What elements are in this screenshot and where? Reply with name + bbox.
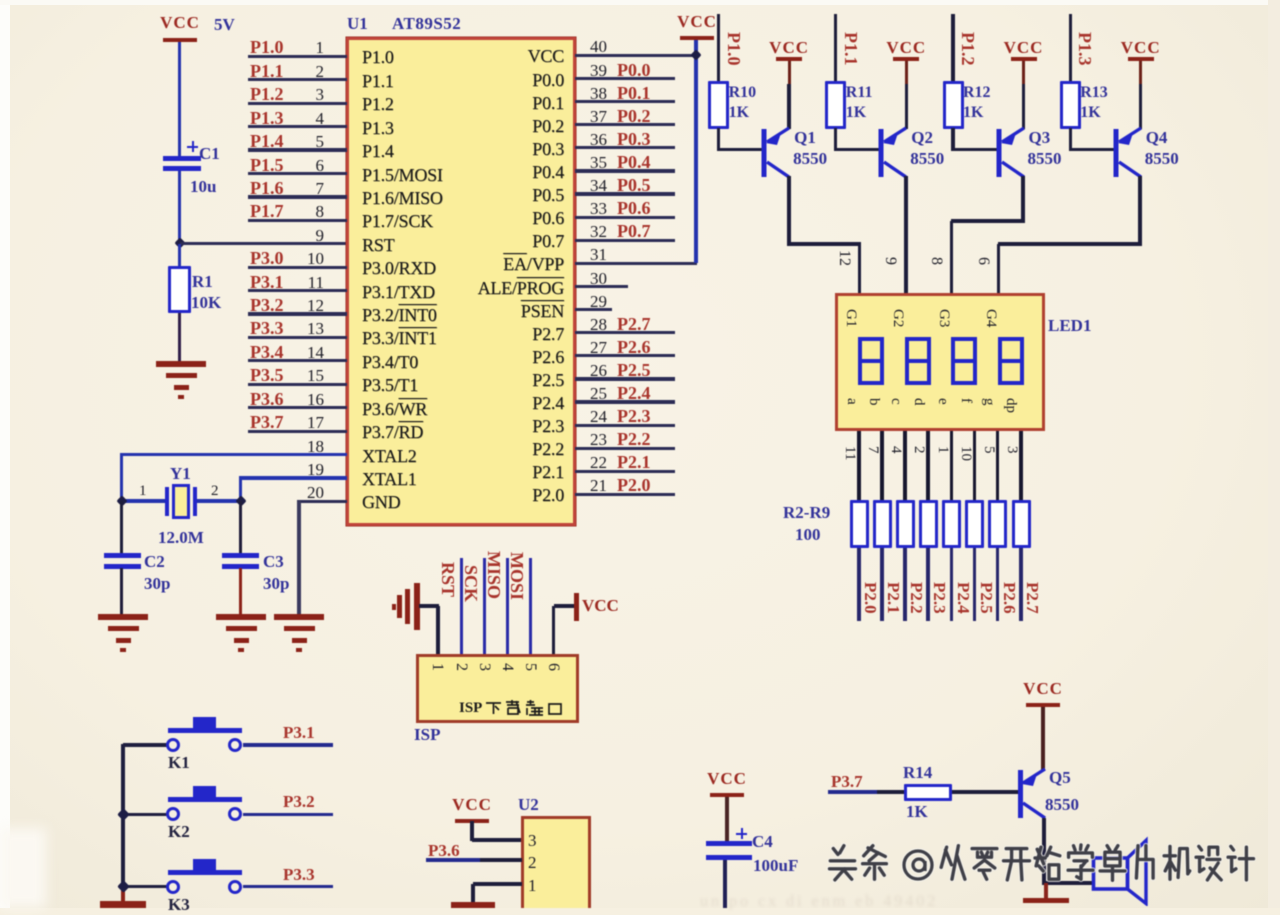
U1 pin name 31 bbox=[364, 254, 564, 275]
U1 pin name 39 bbox=[364, 70, 564, 91]
pin 34 wire bbox=[0, 0, 1280, 1]
pin 3 wire / net label P1.2 bbox=[0, 0, 1280, 1]
LED1 common label G1 bbox=[842, 309, 859, 327]
wire LED1 pin 1 to R6 bbox=[950, 431, 954, 500]
value 8550 bbox=[910, 149, 944, 169]
wire key bus to ground bbox=[121, 886, 125, 901]
node P1.3 (driver input) bbox=[1074, 32, 1095, 66]
U2 pin number 2 bbox=[528, 853, 537, 873]
LED1 segment label f bbox=[957, 398, 974, 403]
resistor R14 bbox=[904, 784, 952, 801]
wire Y1 pin2 to C3 bbox=[239, 501, 242, 553]
pin 6 wire / net label P1.5 bbox=[0, 0, 1280, 1]
value 30p bbox=[263, 574, 289, 594]
designator R2-R9 bbox=[783, 503, 830, 523]
pin 32 wire bbox=[0, 0, 1280, 1]
label 5V bbox=[214, 15, 235, 35]
transistor Q1 8550 PNP bbox=[759, 124, 795, 182]
wire XTAL1 down bbox=[239, 478, 242, 501]
LED1 segment label e bbox=[934, 398, 951, 405]
power VCC (U2 pin3) bbox=[432, 795, 512, 815]
wire VCC down to pin40/pin31 bbox=[694, 40, 697, 263]
designator Y1 bbox=[170, 464, 191, 484]
capacitor C3 (30p) bbox=[222, 553, 259, 568]
pin 21 wire bbox=[0, 0, 1280, 1]
pin 31 wire bbox=[0, 0, 1280, 1]
wire ISP pin6 bbox=[552, 606, 555, 655]
wire ISP pin6 to VCC bbox=[554, 604, 576, 607]
pin number 10 bbox=[957, 446, 974, 461]
designator C1 bbox=[199, 144, 220, 164]
power VCC (Q1 emitter) bbox=[749, 38, 829, 58]
Y1 pin 1 number bbox=[139, 483, 147, 500]
node P1.0 (driver input) bbox=[723, 32, 744, 66]
pin number 11 bbox=[841, 446, 858, 460]
ISP pin number 6 bbox=[544, 663, 562, 671]
Y1 pin 2 number bbox=[211, 483, 219, 500]
wire Q2 collector to LED pin9 bbox=[904, 176, 908, 294]
wire LED pin6 bbox=[997, 244, 1001, 294]
pin number 7 bbox=[864, 446, 881, 454]
pin number 9 bbox=[881, 257, 899, 265]
pin 28 wire bbox=[0, 0, 1280, 1]
wire VCC to Q2 emitter (red) bbox=[905, 61, 908, 84]
wire Y1 pin1 to C2 bbox=[120, 501, 123, 553]
pin number 6 bbox=[974, 257, 992, 265]
watermark 头条 @从零开始学单片机设计 bbox=[820, 840, 1268, 898]
wire base of Q1 bbox=[719, 148, 766, 151]
resistor R6 bbox=[942, 500, 961, 548]
U1 pin name 4 bbox=[362, 118, 394, 139]
U1 pin name 29 bbox=[364, 301, 564, 322]
pin 17 wire / net label P3.7 bbox=[0, 0, 1280, 1]
wire Q5 to speaker bbox=[1044, 881, 1092, 885]
C4 polarity plus bbox=[736, 828, 747, 839]
wire key bus bbox=[121, 744, 125, 889]
display LED1 (4-digit 7-segment) bbox=[835, 293, 1045, 431]
pin 35 wire bbox=[0, 0, 1280, 1]
junction RST node bbox=[174, 237, 185, 248]
ground (ISP pin1, rotated) bbox=[392, 583, 420, 630]
designator C4 bbox=[752, 832, 773, 852]
designator ISP bbox=[414, 725, 440, 745]
wire P1.3 into R13 bbox=[1069, 14, 1072, 82]
power VCC (Q2 emitter) bbox=[866, 38, 946, 58]
pin 4 wire / net label P1.3 bbox=[0, 0, 1280, 1]
U1 pin name 7 bbox=[362, 188, 443, 209]
value 8550 bbox=[1028, 149, 1062, 169]
wire C3 to ground bbox=[239, 568, 242, 614]
pin 33 wire bbox=[0, 0, 1280, 1]
node RST bbox=[437, 562, 458, 597]
U1 pin name 6 bbox=[362, 165, 443, 186]
wire net P3.7 underline bbox=[828, 790, 877, 793]
pin 12 wire / net label P3.2 bbox=[0, 0, 1280, 1]
wire Y1 right bbox=[197, 499, 241, 502]
wire LED1 pin 5 to R8 bbox=[996, 431, 1000, 500]
crystal Y1 bbox=[165, 484, 197, 520]
designator Q2 bbox=[911, 128, 933, 148]
pin 39 wire bbox=[0, 0, 1280, 1]
pin 14 wire / net label P3.4 bbox=[0, 0, 1280, 1]
wire C1 to RST node bbox=[178, 171, 181, 244]
junction Y1 pin1 node bbox=[116, 495, 127, 506]
U1 pin name 30 bbox=[364, 278, 564, 299]
designator R11 bbox=[846, 84, 873, 102]
U1 pin name 25 bbox=[364, 393, 564, 414]
ground (speaker net, clipped) bbox=[1023, 898, 1069, 903]
pin 23 wire bbox=[0, 0, 1280, 1]
ground below C2 bbox=[98, 614, 148, 620]
node P1.1 (driver input) bbox=[840, 32, 861, 66]
U1 pin name 17 bbox=[362, 422, 423, 443]
wire ISP pin1 bbox=[436, 606, 439, 655]
value 1K bbox=[846, 104, 866, 122]
LED1 common label G4 bbox=[982, 309, 999, 327]
pin number 2 bbox=[910, 446, 927, 454]
pin number 8 bbox=[927, 257, 945, 265]
wire P1.0 into R10 bbox=[717, 14, 720, 82]
pin 7 wire / net label P1.6 bbox=[0, 0, 1280, 1]
pin number 4 bbox=[887, 446, 904, 454]
node P1.2 (driver input) bbox=[957, 32, 978, 66]
wire VCC to Q1 emitter bbox=[787, 84, 790, 129]
wire GND pin20 down bbox=[297, 501, 300, 614]
wire U2 pin1 down bbox=[471, 884, 474, 902]
resistor R11 bbox=[825, 81, 846, 129]
LED1 digit G4 bbox=[998, 337, 1024, 385]
wire base of Q4 bbox=[1070, 148, 1117, 151]
wire R4 to net P2.2 bbox=[903, 548, 907, 621]
resistor R4 bbox=[896, 500, 915, 548]
U1 pin name 20 bbox=[362, 492, 400, 513]
designator C2 bbox=[144, 552, 165, 572]
junction pin40 node bbox=[690, 50, 701, 61]
LED1 segment label a bbox=[843, 398, 860, 405]
ISP pin number 5 bbox=[521, 663, 539, 671]
wire K1 to net P3.1 bbox=[243, 743, 333, 746]
U1 pin name 5 bbox=[362, 141, 394, 162]
wire P3.6 to U2 pin2 bbox=[480, 858, 522, 861]
node P2.7 bbox=[1022, 582, 1042, 614]
wire R3 to net P2.1 bbox=[880, 548, 884, 621]
U1 pin name 9 bbox=[362, 235, 394, 256]
wire Q4 to LED pin6 bbox=[998, 242, 1140, 246]
wire P1.2 into R12 bbox=[951, 14, 954, 82]
wire Q1 collector bbox=[787, 176, 791, 246]
wire R1 to ground bbox=[178, 313, 181, 361]
pin 27 wire bbox=[0, 0, 1280, 1]
wire base of Q2 bbox=[836, 148, 883, 151]
U1 pin name 8 bbox=[362, 211, 433, 232]
node MOSI bbox=[506, 552, 527, 600]
wire LED1 pin 4 to R4 bbox=[903, 431, 907, 500]
wire XTAL2 down bbox=[120, 455, 123, 501]
wire R5 to net P2.3 bbox=[926, 548, 930, 621]
wire LED1 pin 7 to R3 bbox=[880, 431, 884, 500]
U1 pin name 15 bbox=[362, 375, 418, 396]
resistor R1 bbox=[168, 266, 191, 313]
pin 9 stub bbox=[0, 0, 1280, 1]
pin 2 wire / net label P1.1 bbox=[0, 0, 1280, 1]
wire VCC to C4 bbox=[725, 797, 728, 841]
designator Q4 bbox=[1146, 128, 1168, 148]
transistor Q3 8550 PNP bbox=[994, 124, 1030, 182]
U1 pin name 1 bbox=[362, 47, 394, 68]
wire Q3 collector bbox=[1021, 176, 1025, 223]
resistor R13 bbox=[1060, 81, 1081, 129]
wire RST node to pin9 bbox=[180, 242, 348, 245]
pin 25 wire bbox=[0, 0, 1280, 1]
U1 pin name 13 bbox=[362, 328, 437, 349]
pin 20 stub bbox=[0, 0, 1280, 1]
node P2.2 bbox=[906, 582, 926, 614]
U1 pin name 19 bbox=[362, 469, 417, 490]
node P2.4 bbox=[953, 582, 973, 614]
pin 19 stub bbox=[0, 0, 1280, 1]
value 1K bbox=[963, 104, 983, 122]
U1 pin name 40 bbox=[364, 46, 564, 67]
ground (key bus, clipped) bbox=[100, 901, 146, 908]
U1 pin name 16 bbox=[362, 399, 427, 420]
pin 24 wire bbox=[0, 0, 1280, 1]
U1 pin name 26 bbox=[364, 370, 564, 391]
wire ISP pin5 (MOSI) bbox=[529, 558, 533, 655]
wire K2 to net P3.2 bbox=[243, 813, 333, 816]
node P2.0 bbox=[860, 582, 880, 614]
pin number 1 bbox=[934, 446, 951, 454]
node P3.7 bbox=[831, 772, 863, 792]
designator K2 bbox=[168, 822, 190, 842]
node P3.1 bbox=[283, 723, 315, 743]
ground (U2 pin1, clipped) bbox=[451, 902, 495, 908]
pin 8 wire / net label P1.7 bbox=[0, 0, 1280, 1]
wire VCC to U2 pin3 bbox=[470, 821, 473, 841]
pin number 12 bbox=[835, 250, 853, 266]
wire LED1 pin 3 to R9 bbox=[1019, 431, 1023, 500]
junction Y1 pin2 node bbox=[235, 495, 246, 506]
wire R7 to net P2.5 bbox=[973, 548, 977, 621]
pin 10 wire / net label P3.0 bbox=[0, 0, 1280, 1]
LED1 segment label d bbox=[910, 398, 927, 406]
ground below C3 bbox=[216, 614, 266, 620]
node P3.3 bbox=[283, 865, 315, 885]
IC U1 AT89S52 body bbox=[346, 37, 576, 526]
capacitor C4 (100uF electrolytic) bbox=[706, 841, 752, 860]
junction bus node K2 bbox=[117, 808, 130, 821]
designator R13 bbox=[1080, 84, 1108, 102]
value 12.0M bbox=[158, 528, 204, 548]
ground below pin20 bbox=[274, 614, 324, 620]
wire P3.7 to R14 bbox=[877, 790, 905, 793]
designator Q5 bbox=[1049, 768, 1071, 788]
pin 26 wire bbox=[0, 0, 1280, 1]
LED1 segment label b bbox=[865, 398, 882, 406]
U1 pin name 36 bbox=[364, 139, 564, 160]
pin 15 wire / net label P3.5 bbox=[0, 0, 1280, 1]
LED1 segment label c bbox=[887, 398, 904, 405]
wire VCC to C1 bbox=[178, 42, 181, 156]
wire ISP pin3 (SCK) bbox=[483, 558, 487, 655]
U1 pin name 32 bbox=[364, 231, 564, 252]
LED1 segment label g bbox=[980, 398, 997, 406]
ground below R1 bbox=[156, 361, 206, 367]
wire VCC to Q4 emitter (red) bbox=[1139, 61, 1142, 84]
wire LED pin12 bbox=[858, 244, 862, 294]
designator Q1 bbox=[794, 128, 816, 148]
U1 pin name 21 bbox=[364, 485, 564, 506]
wire VCC to Q4 emitter bbox=[1139, 84, 1142, 129]
value 8550 bbox=[793, 149, 827, 169]
resistor R3 bbox=[873, 500, 892, 548]
wire LED1 pin 11 to R2 bbox=[857, 431, 861, 500]
U1 pin name 37 bbox=[364, 116, 564, 137]
U1 pin name 28 bbox=[364, 324, 564, 345]
wire ISP pin2 (RST) bbox=[460, 558, 464, 655]
pin 37 wire bbox=[0, 0, 1280, 1]
U2 pin number 3 bbox=[528, 831, 537, 851]
power VCC (ISP, rotated) bbox=[574, 593, 624, 623]
speaker LS1 bbox=[1088, 836, 1152, 906]
pin 38 wire bbox=[0, 0, 1280, 1]
wire Q5 collector to ground bbox=[1044, 883, 1047, 898]
wire RST node to R1 bbox=[178, 244, 181, 266]
wire Y1 left bbox=[122, 499, 166, 502]
U1 pin name 10 bbox=[362, 258, 436, 279]
node P3.2 bbox=[283, 792, 315, 812]
pin 18 stub bbox=[0, 0, 1280, 1]
wire VCC to Q5 emitter bbox=[1041, 707, 1044, 770]
LED1 segment label dp bbox=[1002, 398, 1019, 413]
pin number 3 bbox=[1003, 446, 1020, 454]
wire VCC to Q3 emitter (red) bbox=[1022, 61, 1025, 84]
LED1 digit G1 bbox=[858, 337, 884, 385]
power VCC (pin40) bbox=[657, 12, 737, 32]
power VCC (top-left) bbox=[140, 13, 220, 33]
value 30p bbox=[144, 574, 170, 594]
wire R10 to base bbox=[717, 128, 720, 151]
U2 pin number 1 bbox=[528, 876, 537, 896]
wire R8 to net P2.6 bbox=[996, 548, 1000, 621]
pin 13 wire / net label P3.3 bbox=[0, 0, 1280, 1]
wire base of Q3 bbox=[953, 148, 1000, 151]
pin 16 wire / net label P3.6 bbox=[0, 0, 1280, 1]
value 1K bbox=[906, 802, 928, 822]
part number AT89S52 bbox=[392, 14, 461, 34]
resistor R12 bbox=[943, 81, 964, 129]
wire Q1 to LED pin12 bbox=[789, 242, 861, 246]
U1 pin name 11 bbox=[362, 282, 435, 303]
designator R10 bbox=[729, 84, 757, 102]
faint ghost watermark bbox=[700, 893, 1260, 908]
pin 1 wire / net label P1.0 bbox=[0, 0, 1280, 1]
LED1 common label G2 bbox=[889, 309, 906, 327]
pin 22 wire bbox=[0, 0, 1280, 1]
resistor R7 bbox=[965, 500, 984, 548]
switch K3 (push button) bbox=[166, 859, 244, 895]
wire C2 to ground bbox=[120, 568, 123, 614]
pin number 5 bbox=[980, 446, 997, 454]
wire LED1 pin 2 to R5 bbox=[926, 431, 930, 500]
value 1K bbox=[1080, 104, 1100, 122]
ISP pin number 1 bbox=[428, 663, 446, 671]
value 10K bbox=[191, 293, 221, 313]
wire R13 to base bbox=[1069, 128, 1072, 151]
ISP pin number 4 bbox=[498, 663, 516, 671]
wire bus to K2 bbox=[123, 813, 168, 816]
designator U1 bbox=[347, 14, 368, 34]
U1 pin name 24 bbox=[364, 416, 564, 437]
designator K1 bbox=[168, 753, 190, 773]
resistor R8 bbox=[988, 500, 1007, 548]
value 1K bbox=[729, 104, 749, 122]
wire R9 to net P2.7 bbox=[1019, 548, 1023, 621]
value 8550 bbox=[1045, 795, 1079, 815]
wire K3 to net P3.3 bbox=[243, 885, 333, 888]
wire Q5 collector bbox=[1042, 818, 1046, 885]
power VCC (Q4 emitter) bbox=[1101, 38, 1181, 58]
designator LED1 bbox=[1048, 316, 1091, 336]
node P2.1 bbox=[883, 582, 903, 614]
IC U2 body (clipped) bbox=[521, 816, 591, 908]
designator U2 bbox=[518, 795, 539, 815]
designator C3 bbox=[263, 552, 284, 572]
switch K1 (push button) bbox=[166, 717, 244, 753]
designator R12 bbox=[963, 84, 991, 102]
ISP pin number 2 bbox=[452, 663, 470, 671]
designator R1 bbox=[192, 272, 213, 292]
wire R12 to base bbox=[951, 128, 954, 151]
pin 30 wire bbox=[0, 0, 1280, 1]
power VCC (Q5) bbox=[1003, 679, 1083, 699]
wire bus to K1 bbox=[123, 743, 168, 746]
node P2.6 bbox=[999, 582, 1019, 614]
pin 40 wire bbox=[0, 0, 1280, 1]
value 100 bbox=[795, 525, 821, 545]
capacitor C1 (10u electrolytic) bbox=[163, 156, 201, 171]
switch K2 (push button) bbox=[166, 786, 244, 822]
wire C4 down bbox=[723, 860, 726, 908]
transistor Q2 8550 PNP bbox=[876, 124, 912, 182]
node MISO bbox=[483, 551, 504, 599]
wire VCC to Q1 emitter (red) bbox=[788, 61, 791, 84]
power VCC (Q3 emitter) bbox=[984, 38, 1064, 58]
wire U2 pin3 wire bbox=[472, 838, 522, 841]
wire R2 to net P2.0 bbox=[857, 548, 861, 621]
U1 pin name 33 bbox=[364, 208, 564, 229]
value 10u bbox=[190, 177, 216, 197]
capacitor C2 (30p) bbox=[104, 553, 141, 568]
U1 pin name 34 bbox=[364, 185, 564, 206]
U1 pin name 14 bbox=[362, 352, 418, 373]
wire R14 to Q5 base bbox=[952, 790, 1019, 793]
wire LED1 pin 10 to R7 bbox=[973, 431, 977, 500]
node P3.6 bbox=[428, 841, 460, 861]
wire R11 to base bbox=[834, 128, 837, 151]
pin 29 wire bbox=[0, 0, 1280, 1]
value 100uF bbox=[753, 856, 798, 876]
U1 pin name 18 bbox=[362, 446, 417, 467]
pin 11 wire / net label P3.1 bbox=[0, 0, 1280, 1]
wire ISP pin4 (MISO) bbox=[506, 558, 510, 655]
wire R6 to net P2.4 bbox=[950, 548, 954, 621]
U1 pin name 35 bbox=[364, 162, 564, 183]
wire VCC to Q3 emitter bbox=[1022, 84, 1025, 129]
resistor R9 bbox=[1012, 500, 1031, 548]
node P2.5 bbox=[976, 582, 996, 614]
U1 pin name 27 bbox=[364, 347, 564, 368]
C1 polarity plus bbox=[187, 141, 198, 152]
